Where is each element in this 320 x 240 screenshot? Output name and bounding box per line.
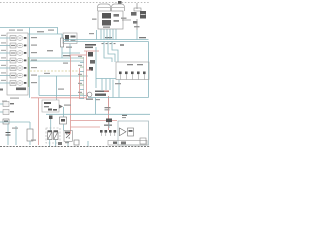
label below long line	[95, 99, 100, 100]
wire U3 left drop	[118, 80, 120, 98]
wire S1 drop to injectors	[50, 119, 52, 132]
connector bar inside box	[108, 141, 147, 146]
connector ring terminal	[87, 92, 92, 97]
ground tab 1	[58, 142, 62, 145]
wire link down	[95, 98, 97, 115]
wire S1 to T1	[63, 107, 65, 117]
diode box D1	[64, 131, 72, 142]
label under relay	[66, 47, 72, 48]
transistor Q1	[106, 119, 112, 123]
wire Q1 drop	[108, 122, 110, 128]
tab on top bus	[118, 1, 122, 4]
wire main bus lower	[63, 41, 149, 43]
connector J1 row 7	[0, 80, 26, 86]
driver row ticks	[101, 133, 115, 136]
wire branch left mid2	[30, 60, 84, 62]
output box bottom-right	[118, 121, 149, 145]
small comp G1	[3, 119, 9, 145]
junction cluster S1 out	[48, 109, 57, 111]
connector J1 side labels	[31, 37, 37, 83]
flexible link (dashed olive)	[30, 70, 79, 72]
pin labels P1	[78, 56, 82, 93]
connector J1 row 2	[0, 42, 26, 48]
wire teal long lower	[46, 113, 150, 115]
pin number text below bus	[102, 43, 116, 44]
sensor R2 body	[49, 116, 53, 120]
bus elbow e2	[108, 42, 115, 63]
wire bottom-left horizontal	[0, 121, 30, 123]
node label riser	[89, 33, 94, 34]
wire mid lower horizontal	[39, 95, 88, 97]
wire drop d3	[109, 79, 111, 91]
wire right edge vertical	[148, 42, 150, 98]
red tick mid-stack	[86, 69, 91, 72]
wire red upper link	[71, 54, 87, 56]
wire sensor drop	[15, 126, 17, 145]
wire relay drop	[69, 44, 71, 57]
wire red horizontal top	[84, 50, 99, 52]
MID module U4 box	[98, 11, 123, 29]
label under ring	[86, 99, 93, 100]
resistor box R10	[27, 122, 33, 145]
wire B+ feed	[28, 31, 62, 34]
label feeder	[48, 30, 54, 31]
wire top-left feeder	[0, 28, 58, 35]
U4 pin wires	[101, 29, 116, 40]
op-amp U6	[120, 128, 127, 136]
wire red to driver row	[71, 126, 101, 128]
wire under module horizontal	[96, 78, 116, 80]
capacitor C1	[6, 133, 11, 136]
wire red collector	[31, 97, 87, 99]
connector J1 bottom note	[10, 98, 19, 99]
bus elbow e1	[104, 42, 112, 63]
wire red vertical R-A	[86, 51, 88, 99]
label near diode box	[64, 105, 71, 106]
injector pair dashed box	[46, 128, 60, 143]
wire long lower horizontal	[88, 97, 149, 99]
ground label A	[31, 140, 36, 141]
connector J1 outer box	[7, 33, 28, 95]
wire mid short horizontal	[62, 52, 80, 54]
label right of red	[122, 115, 127, 116]
bus tick label A	[105, 37, 112, 38]
ground label B	[65, 142, 69, 143]
wire red vertical R-B	[79, 68, 81, 99]
connector J1 right bus wire	[29, 28, 31, 98]
wire branch left mid1	[30, 57, 80, 59]
battery area bottom-left row1	[0, 101, 14, 107]
wire vertical x39	[38, 76, 40, 96]
connector J1 row 1	[0, 35, 26, 41]
bus inline connector	[120, 44, 124, 46]
wire red left drop	[38, 98, 40, 145]
label 95 top	[92, 19, 97, 20]
node label branch	[63, 63, 68, 64]
wire red into diode box	[68, 133, 71, 135]
connector J1 row 5	[0, 65, 26, 71]
wire red right drop	[108, 96, 110, 130]
wire stub mid-bottom	[87, 141, 89, 146]
antenna module U5 (top right)	[121, 3, 146, 40]
label bottom mid	[105, 107, 111, 108]
small marks below U3	[115, 83, 121, 84]
label bottom-left	[12, 128, 18, 129]
wire mid horizontal	[38, 75, 88, 77]
ground tab 3	[121, 142, 126, 145]
wire below box left	[112, 80, 114, 98]
corner box	[140, 138, 146, 144]
node label drop A	[58, 89, 64, 90]
connector J1 row 4	[0, 57, 26, 63]
node label olive	[44, 73, 50, 74]
bus elbow e3	[112, 42, 118, 63]
connector J1 top labels	[9, 30, 23, 31]
wire drop d2	[105, 79, 107, 91]
wire vertical drop A	[56, 76, 58, 100]
node label fuse out	[63, 55, 70, 56]
wires dashed box to ground	[50, 124, 68, 146]
wire main bus upper	[63, 39, 149, 41]
pin strip P1	[80, 57, 84, 99]
ground ref label	[0, 89, 3, 91]
wire red main drop	[70, 55, 72, 134]
battery area bottom-left row2	[0, 110, 14, 115]
component stack U2	[85, 44, 96, 88]
diode module box U3	[116, 62, 149, 80]
relay K1	[63, 33, 77, 44]
driver row transistors	[100, 130, 116, 133]
node label mid	[47, 50, 53, 51]
connector J1 bottom label	[16, 88, 26, 91]
top harness bus (dotted)	[0, 2, 150, 4]
connector J1 row 3	[0, 50, 26, 56]
green branch wire	[28, 57, 30, 87]
connector J1 row 6	[0, 72, 26, 78]
ground bus bottom (dashed)	[0, 146, 150, 148]
bus tick label B	[139, 37, 146, 38]
MID module top: connector shells	[98, 4, 125, 11]
wire red lower bus	[71, 120, 118, 122]
coil T1 small box	[60, 117, 67, 124]
teal vertical riser to module	[96, 30, 98, 40]
ignition switch S1 box	[42, 100, 63, 112]
ground tab 2	[74, 140, 79, 145]
regulator U7	[128, 128, 134, 136]
fuse F1	[61, 34, 64, 58]
driver row label	[104, 125, 112, 126]
junction cluster	[95, 91, 109, 96]
wire drop d1	[101, 79, 103, 91]
